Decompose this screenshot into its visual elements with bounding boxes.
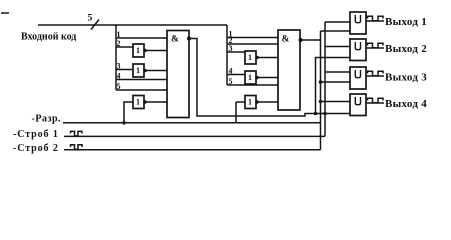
wire: Strobe2 line	[64, 149, 321, 151]
svg-text:-Строб 1: -Строб 1	[13, 129, 59, 140]
wire: inverter3 output to AND1	[145, 70, 167, 72]
wire: block2 enable inverter output to AND2	[257, 101, 278, 103]
wire: block2 input bus vertical (bus corner)	[226, 25, 228, 85]
inverter block2 bottom (enable)	[245, 96, 259, 109]
wire: block1 input 5	[116, 89, 167, 91]
wire: block2 enable inverter input stub	[236, 101, 245, 103]
wire: T2 top input stub	[325, 46, 350, 48]
inverter on block2 input 3	[245, 51, 259, 64]
wire: T4 top input stub	[321, 101, 351, 103]
node: junction A line / T2 riser	[314, 112, 318, 116]
wire: Razr line	[63, 122, 321, 124]
wire: output 3	[366, 75, 384, 77]
wire: block2 input 4	[227, 74, 245, 76]
svg-text:-Строб 2: -Строб 2	[13, 143, 59, 154]
svg-text:1: 1	[136, 66, 140, 75]
svg-text:1: 1	[248, 73, 252, 82]
pulse symbol output 4	[368, 98, 384, 103]
wire: output 4	[366, 102, 384, 104]
pulse symbol output 3	[368, 71, 384, 76]
inverter block1 bottom (enable)	[133, 96, 147, 109]
svg-text:Выход 4: Выход 4	[385, 98, 427, 110]
wire: block2 input 3	[227, 51, 245, 53]
wire: block1 input 4	[116, 79, 167, 81]
pulse symbol strobe 2	[71, 145, 83, 150]
pulse symbol output 2	[368, 43, 384, 48]
node: junction V3 / A line	[323, 112, 327, 116]
svg-text:1: 1	[136, 98, 140, 107]
wire: Strobe1 line	[64, 135, 325, 137]
wire: vertical bus V3	[324, 22, 326, 136]
wire: block1 input 1	[116, 37, 167, 39]
wire: enable inverter input from Razr line	[124, 102, 133, 123]
inverter on block1 input 3	[133, 64, 147, 77]
svg-text:Выход 3: Выход 3	[385, 72, 427, 84]
wire: block1 input 3	[116, 69, 133, 71]
trigger T4	[350, 94, 366, 116]
svg-text:1: 1	[248, 53, 252, 62]
svg-text:&: &	[171, 35, 179, 45]
svg-text:&: &	[282, 35, 290, 45]
gate: AND (NAND) block2	[278, 30, 300, 110]
trigger T1	[350, 12, 366, 34]
wire: block1 input 2	[116, 46, 133, 48]
pulse symbol output 1	[368, 16, 384, 21]
wire: T3 top input stub	[325, 71, 350, 73]
wire: block1 input bus vertical	[115, 25, 117, 90]
wire: enable inverter output to AND1	[145, 101, 167, 103]
wire: inverter2 output to AND1	[145, 50, 167, 52]
wire: block2 inverter4 output to AND2	[257, 77, 278, 79]
wire: block2 inverter3 output to AND2	[257, 57, 278, 59]
svg-text:1: 1	[248, 98, 252, 107]
svg-text:1: 1	[136, 46, 140, 55]
pulse symbol strobe 1	[71, 131, 83, 136]
wire: block2 input 1	[227, 37, 278, 39]
wire: output 2	[366, 47, 384, 49]
wire: AND1 output down and right (signal A)	[189, 39, 350, 117]
wire: AND2 output (signal B) to vertical bus	[301, 39, 321, 41]
bus width slash	[91, 20, 99, 30]
wire: block2 input 5	[227, 84, 278, 86]
svg-text:Входной код: Входной код	[21, 32, 76, 43]
inverter on block1 input 2	[133, 44, 147, 57]
wire: block2 input 2	[227, 43, 278, 45]
node: junction V2/T4 top	[319, 100, 323, 104]
wire: T1 bottom input stub	[321, 30, 351, 32]
node: AND1 output junction dot	[187, 37, 191, 41]
svg-text:Выход 2: Выход 2	[385, 43, 427, 55]
trigger T2	[350, 39, 366, 61]
wire: left edge tick	[1, 12, 9, 14]
node: junction on Razr line	[122, 121, 126, 125]
svg-text:Выход 1: Выход 1	[385, 16, 427, 28]
node: junction V2/T3 bottom	[319, 80, 323, 84]
trigger T3	[350, 67, 366, 89]
wire: T2 lower input riser from signal A	[316, 58, 351, 114]
inverter on block2 input 4	[245, 71, 259, 84]
wire: branch up to block2 enable inverter	[235, 102, 237, 123]
wire: T3 bottom input stub	[321, 81, 351, 83]
wire: T1 top input stub	[325, 21, 350, 23]
wire: input code bus (top horizontal)	[38, 24, 227, 26]
svg-text:-Разр.: -Разр.	[32, 114, 62, 125]
gate: AND (NAND) block1	[167, 31, 189, 118]
wire: vertical bus V2	[320, 31, 322, 150]
svg-text:5: 5	[88, 14, 93, 24]
wire: output 1	[366, 20, 384, 22]
node: AND2 output junction dot	[299, 38, 303, 42]
